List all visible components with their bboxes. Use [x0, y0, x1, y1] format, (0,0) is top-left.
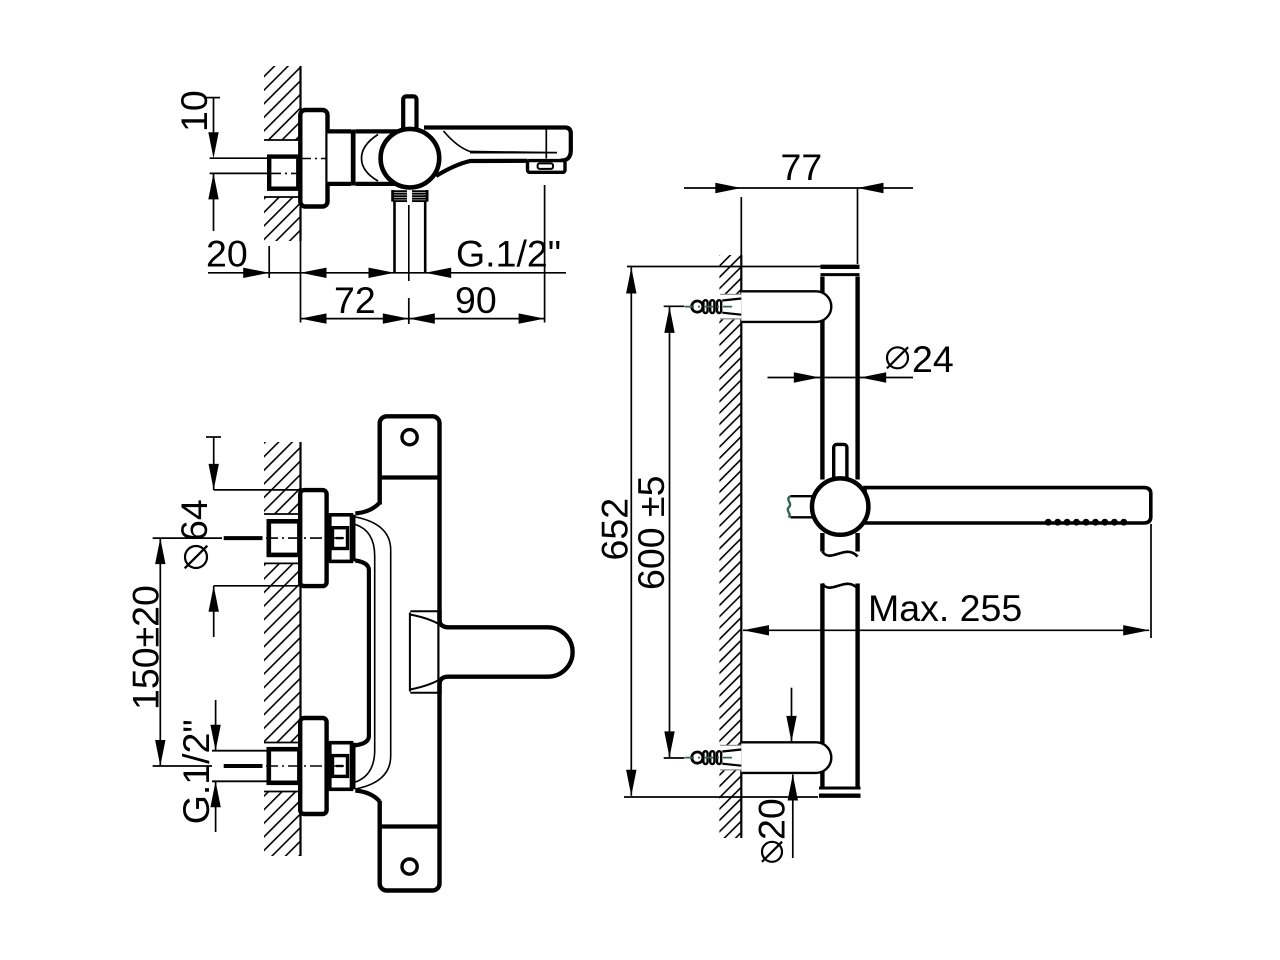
- dim Max. 255: [743, 629, 1149, 631]
- dim dia64: [206, 436, 221, 438]
- pipe centerline: [408, 205, 410, 281]
- dim 77: [684, 187, 913, 189]
- spout flare (front view): [410, 610, 439, 612]
- fixing screw at y=306.6: [719, 294, 742, 318]
- svg-text:150±20: 150±20: [125, 585, 167, 710]
- screw hole top: [402, 430, 417, 445]
- hose break squiggle (green): [788, 496, 791, 517]
- hand shower wand: [865, 488, 1151, 523]
- wall face line (right view): [740, 255, 742, 838]
- nut: [330, 515, 352, 562]
- svg-text:10: 10: [173, 90, 215, 132]
- hose stub: [791, 495, 815, 497]
- wand nozzle dots: [1045, 519, 1052, 526]
- wall face line (top-left view): [299, 66, 301, 110]
- dim dia24: [768, 377, 914, 379]
- threaded outlet collar: [392, 190, 427, 201]
- svg-text:600 ±5: 600 ±5: [630, 476, 672, 590]
- handle stem: [403, 96, 416, 141]
- ring band: [351, 130, 356, 186]
- svg-text:G.1/2": G.1/2": [456, 233, 561, 275]
- spout inner line: [444, 131, 558, 153]
- fixing screw at y=757.6: [719, 745, 742, 769]
- union square: [269, 749, 300, 783]
- body cap lines: [380, 475, 440, 479]
- dim 150+-20: [153, 537, 222, 539]
- body reflection arc: [362, 135, 379, 182]
- aerator: [528, 161, 566, 173]
- wall bracket arm at y=757.6: [741, 742, 816, 773]
- svg-text:77: 77: [781, 146, 823, 188]
- centerline: [224, 536, 263, 540]
- wall bracket arm at y=306.6: [741, 291, 816, 322]
- supply pipe stub: [212, 751, 269, 782]
- svg-text:G.1/2": G.1/2": [175, 719, 217, 824]
- nut band: [351, 515, 355, 562]
- connector cylinder: [328, 131, 352, 184]
- screw centerline (green): [685, 757, 736, 759]
- svg-text:20: 20: [206, 233, 248, 275]
- screw hole bottom: [402, 859, 417, 874]
- centerline: [224, 764, 263, 768]
- flange: [300, 718, 326, 814]
- wall hatch (right view): [719, 255, 741, 838]
- svg-text:20: 20: [751, 798, 793, 840]
- spout tip separation line: [545, 128, 547, 159]
- bar top cap: [821, 265, 860, 269]
- slider knob: [834, 444, 847, 480]
- slider circle: [812, 478, 868, 534]
- slide bar: [820, 277, 824, 480]
- control knob circle: [381, 129, 440, 188]
- dim row2: 72 and 90: [301, 318, 545, 320]
- nut band: [351, 743, 355, 790]
- centerline through flange: [301, 158, 327, 160]
- union square: [269, 521, 300, 555]
- wall face line (bottom-left view): [299, 442, 301, 490]
- shower pipe below: [393, 202, 396, 272]
- dim 600+-5: [669, 307, 671, 757]
- bar break waves: [822, 552, 857, 557]
- screw centerline (green): [685, 306, 736, 308]
- connection bells and waist tube: [355, 503, 379, 514]
- svg-text:Max. 255: Max. 255: [868, 587, 1022, 629]
- spout top edge: [424, 128, 571, 161]
- wall union square (top-left): [269, 157, 298, 189]
- svg-text:24: 24: [912, 338, 954, 380]
- dim 652: [630, 268, 632, 796]
- faucet body: [356, 131, 408, 184]
- flange extension lines (dia 64): [214, 489, 300, 491]
- svg-text:72: 72: [334, 279, 376, 321]
- wall hatch (bottom-left view): [264, 442, 301, 514]
- spout bar (front view): [440, 620, 573, 685]
- nut: [330, 743, 352, 790]
- ext line 652 top / bar top: [627, 266, 821, 268]
- dim dia20: [791, 688, 793, 742]
- wall hatch (top-left view): [264, 66, 301, 140]
- bar bottom cap: [819, 787, 861, 790]
- spout bottom edge: [436, 161, 528, 176]
- centerline in square: [271, 172, 298, 174]
- dim 10: [206, 97, 220, 99]
- wall flange (top-left): [300, 110, 327, 207]
- svg-text:64: 64: [173, 499, 215, 541]
- flange: [300, 490, 326, 586]
- mixer body: [380, 416, 440, 890]
- dim row1: 20 and G.1/2: [208, 272, 566, 274]
- svg-text:90: 90: [455, 279, 497, 321]
- extension lines for 10 dim: [210, 157, 270, 159]
- dim G.1/2 (bottom-left): [215, 700, 217, 751]
- ext line 652 bottom: [624, 796, 818, 798]
